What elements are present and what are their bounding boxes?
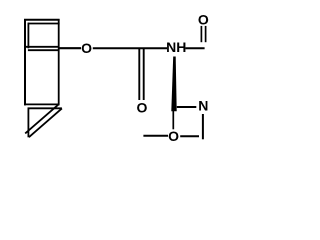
svg-text:N: N bbox=[198, 98, 208, 114]
svg-text:O: O bbox=[81, 40, 92, 56]
svg-text:NH: NH bbox=[166, 39, 186, 55]
svg-text:O: O bbox=[168, 128, 179, 144]
svg-text:O: O bbox=[137, 100, 148, 116]
svg-text:O: O bbox=[198, 12, 209, 28]
